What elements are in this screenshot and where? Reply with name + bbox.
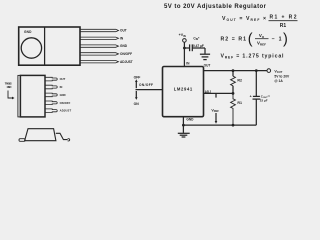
svg-text:ON/OFF: ON/OFF bbox=[139, 83, 153, 87]
svg-text:R1: R1 bbox=[237, 101, 242, 105]
svg-text:OUT: OUT bbox=[120, 29, 127, 33]
VREF annotation arrow bbox=[215, 113, 217, 122]
svg-text:@ 1A: @ 1A bbox=[274, 79, 283, 83]
GND pin wire bbox=[182, 117, 184, 125]
svg-text:(: ( bbox=[248, 32, 253, 48]
junction at OUT rail / R2 bbox=[232, 69, 235, 72]
D2PAK pin 4 lead bbox=[45, 101, 57, 105]
VREF annotation stub bbox=[215, 93, 217, 97]
junction at OUT rail / COUT bbox=[255, 69, 258, 72]
svg-text:R2 = R1: R2 = R1 bbox=[221, 37, 247, 43]
wire CIN to ground bbox=[192, 47, 205, 49]
svg-text:R2: R2 bbox=[237, 79, 242, 83]
svg-text:GND: GND bbox=[120, 44, 128, 48]
svg-text:R1: R1 bbox=[280, 23, 287, 29]
svg-text:5V to 20V: 5V to 20V bbox=[274, 74, 290, 78]
arrow from TAB IS GND note bbox=[8, 91, 13, 99]
svg-text:OUT: OUT bbox=[204, 64, 211, 68]
svg-text:IN: IN bbox=[60, 85, 63, 89]
svg-text:ON/OFF: ON/OFF bbox=[60, 101, 71, 105]
TO-220 pin 5 lead bbox=[80, 61, 119, 63]
wire OUT rail to R2 bbox=[232, 71, 234, 77]
svg-text:ON: ON bbox=[134, 102, 140, 106]
svg-text:LM2941: LM2941 bbox=[174, 87, 193, 92]
svg-text:ADJ: ADJ bbox=[205, 90, 212, 94]
TO-220 pin 4 lead bbox=[80, 53, 119, 55]
ON direction arrow bbox=[135, 91, 137, 98]
D2PAK pin 5 lead bbox=[45, 109, 57, 113]
svg-text:): ) bbox=[283, 32, 288, 48]
D2PAK pin 1 lead bbox=[45, 77, 57, 81]
D2PAK pin 2 lead bbox=[45, 85, 57, 89]
+VIN terminal circle bbox=[183, 39, 187, 43]
D2PAK side view gull lead bbox=[56, 133, 68, 139]
D2PAK body bbox=[20, 75, 45, 117]
svg-text:GND: GND bbox=[186, 118, 194, 122]
svg-text:ON/OFF: ON/OFF bbox=[120, 52, 132, 56]
resistor R1 zigzag bbox=[231, 93, 236, 125]
junction at ADJ node / R1 / R2 bbox=[232, 92, 235, 95]
D2PAK side view tab foot bbox=[19, 139, 25, 142]
ON/OFF pin wire bbox=[136, 89, 163, 91]
TO-220 pin 2 lead bbox=[80, 37, 119, 39]
svg-text:22 µF: 22 µF bbox=[260, 99, 268, 103]
capacitor CIN plates bbox=[189, 44, 191, 51]
TO-220 package outline bbox=[19, 27, 80, 65]
COUT branch wire bbox=[255, 71, 257, 96]
svg-text:GND: GND bbox=[60, 93, 66, 97]
svg-text:5V to 20V Adjustable Regulator: 5V to 20V Adjustable Regulator bbox=[164, 4, 267, 10]
svg-text:OUT: OUT bbox=[60, 77, 66, 81]
resistor R2 zigzag bbox=[231, 76, 236, 86]
junction at GND rail / ground bbox=[182, 124, 185, 127]
TO-220 pin 3 lead bbox=[80, 45, 119, 47]
D2PAK tab strip bbox=[18, 75, 21, 117]
D2PAK side view body bbox=[25, 129, 56, 141]
svg-text:GND: GND bbox=[7, 85, 12, 89]
svg-text:GND: GND bbox=[24, 30, 32, 34]
svg-text:− 1: − 1 bbox=[272, 37, 282, 43]
wire COUT to rail bbox=[255, 99, 257, 125]
ground symbol (CIN) bbox=[204, 48, 206, 54]
VOUT terminal circle bbox=[267, 69, 271, 73]
svg-text:0.47 µF: 0.47 µF bbox=[193, 44, 204, 48]
junction at VIN / CIN node bbox=[183, 47, 186, 50]
wire junction to CIN bbox=[184, 47, 189, 49]
svg-text:+: + bbox=[250, 94, 252, 98]
TO-220 tab divider bbox=[44, 27, 46, 65]
capacitor COUT plates bbox=[253, 95, 260, 97]
junction at GND rail / R1 bbox=[232, 124, 235, 127]
ADJ pin wire bbox=[204, 92, 234, 94]
OUT rail from box to VOUT terminal bbox=[204, 70, 267, 72]
ground symbol (main) bbox=[182, 125, 184, 133]
op-amp/regulator U1 LM2941 box bbox=[163, 67, 204, 117]
svg-text:ADJUST: ADJUST bbox=[60, 109, 72, 113]
D2PAK pin 3 lead bbox=[45, 93, 57, 97]
TO-220 pin 1 lead bbox=[80, 29, 119, 31]
bottom ground rail bbox=[183, 124, 256, 126]
svg-text:OFF: OFF bbox=[134, 75, 141, 79]
wire R2 to ADJ node bbox=[232, 86, 234, 94]
OFF direction arrow bbox=[135, 82, 137, 89]
wire +VIN down to IN pin bbox=[183, 42, 185, 66]
fraction bar eq2 bbox=[255, 38, 269, 40]
svg-text:ADJUST: ADJUST bbox=[120, 60, 133, 64]
fraction bar eq1 bbox=[269, 20, 298, 22]
TO-220 mounting hole bbox=[21, 38, 41, 58]
